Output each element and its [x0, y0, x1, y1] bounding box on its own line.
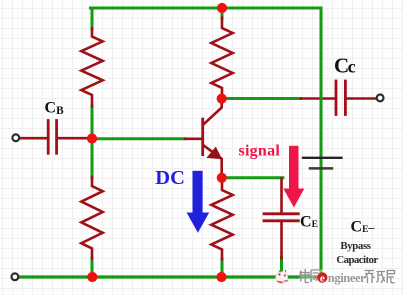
wire base node to R3 top	[91, 138, 94, 178]
wire CE bottom vertical (dark red)	[280, 222, 283, 258]
capacitor C_B plates	[48, 121, 56, 154]
svg-text:ngineer: ngineer	[328, 271, 366, 285]
wire Vcc right drop	[320, 8, 323, 279]
junction dot ground rail mid	[216, 272, 226, 282]
junction dot ground rail left	[87, 272, 97, 282]
watermark icon	[276, 270, 289, 284]
junction dot emitter node	[217, 173, 227, 183]
junction dot ground rail CE	[276, 272, 286, 282]
wire left drop from top rail	[91, 8, 94, 29]
wire R2 top stub	[221, 8, 224, 19]
svg-text:e: e	[320, 273, 325, 285]
wire emitter node to CE corner	[222, 176, 283, 179]
电 glyph	[300, 269, 309, 283]
transistor Q1 collector lead	[203, 99, 222, 125]
源 glyph	[311, 270, 321, 282]
wire CE top vertical	[280, 179, 283, 213]
resistor R1	[81, 29, 102, 107]
齐 glyph	[364, 271, 375, 284]
output terminal	[377, 95, 384, 102]
capacitor CE plates	[264, 214, 298, 221]
wire input terminal to CB	[19, 137, 47, 140]
svg-text:Bypass: Bypass	[340, 240, 370, 252]
transistor Q1 emitter lead	[204, 146, 222, 179]
input terminal	[12, 134, 19, 141]
watermark halo	[300, 270, 396, 285]
DC arrow	[187, 171, 210, 233]
wire base node to base lead (green part)	[92, 137, 185, 140]
junction dot top rail	[217, 3, 227, 13]
resistor R4	[211, 182, 232, 260]
svg-text:Capacitor: Capacitor	[336, 254, 378, 266]
resistor R2	[211, 18, 232, 100]
wire CE bottom green part to rail	[280, 258, 283, 278]
junction dot base node	[87, 133, 97, 143]
wire bottom ground rail	[19, 275, 322, 278]
wire R4 bottom green to rail	[221, 259, 224, 277]
transistor Q1 emitter arrowhead	[206, 147, 222, 160]
watermark text	[300, 269, 394, 285]
svg-text:signal: signal	[239, 143, 281, 160]
svg-text:Cc: Cc	[334, 54, 356, 78]
capacitor Cc wire right to output	[347, 97, 377, 100]
wire R1 bottom to base node	[91, 106, 94, 138]
battery long plate	[303, 157, 342, 159]
ground terminal	[12, 273, 19, 280]
capacitor Cc plates	[336, 81, 345, 115]
resistor R3	[81, 177, 102, 259]
wire collector node to Cc (green part)	[222, 97, 301, 100]
wire top rail	[91, 7, 322, 10]
尼 glyph	[387, 271, 394, 284]
wire base lead (dark red part)	[185, 138, 202, 141]
junction dot collector node	[217, 94, 227, 104]
wire CB to base node	[58, 137, 93, 140]
red circle e	[317, 272, 327, 282]
capacitor Cc wire left	[301, 97, 334, 100]
wire R3 bottom to ground rail	[91, 258, 94, 277]
battery short plate	[310, 167, 332, 170]
svg-text:DC: DC	[155, 167, 185, 189]
transistor Q1 base bar	[201, 118, 204, 156]
成 glyph	[377, 272, 386, 284]
signal arrow	[283, 146, 304, 208]
wire Vcc drop overlay at Cc wire crossing	[320, 91, 323, 106]
